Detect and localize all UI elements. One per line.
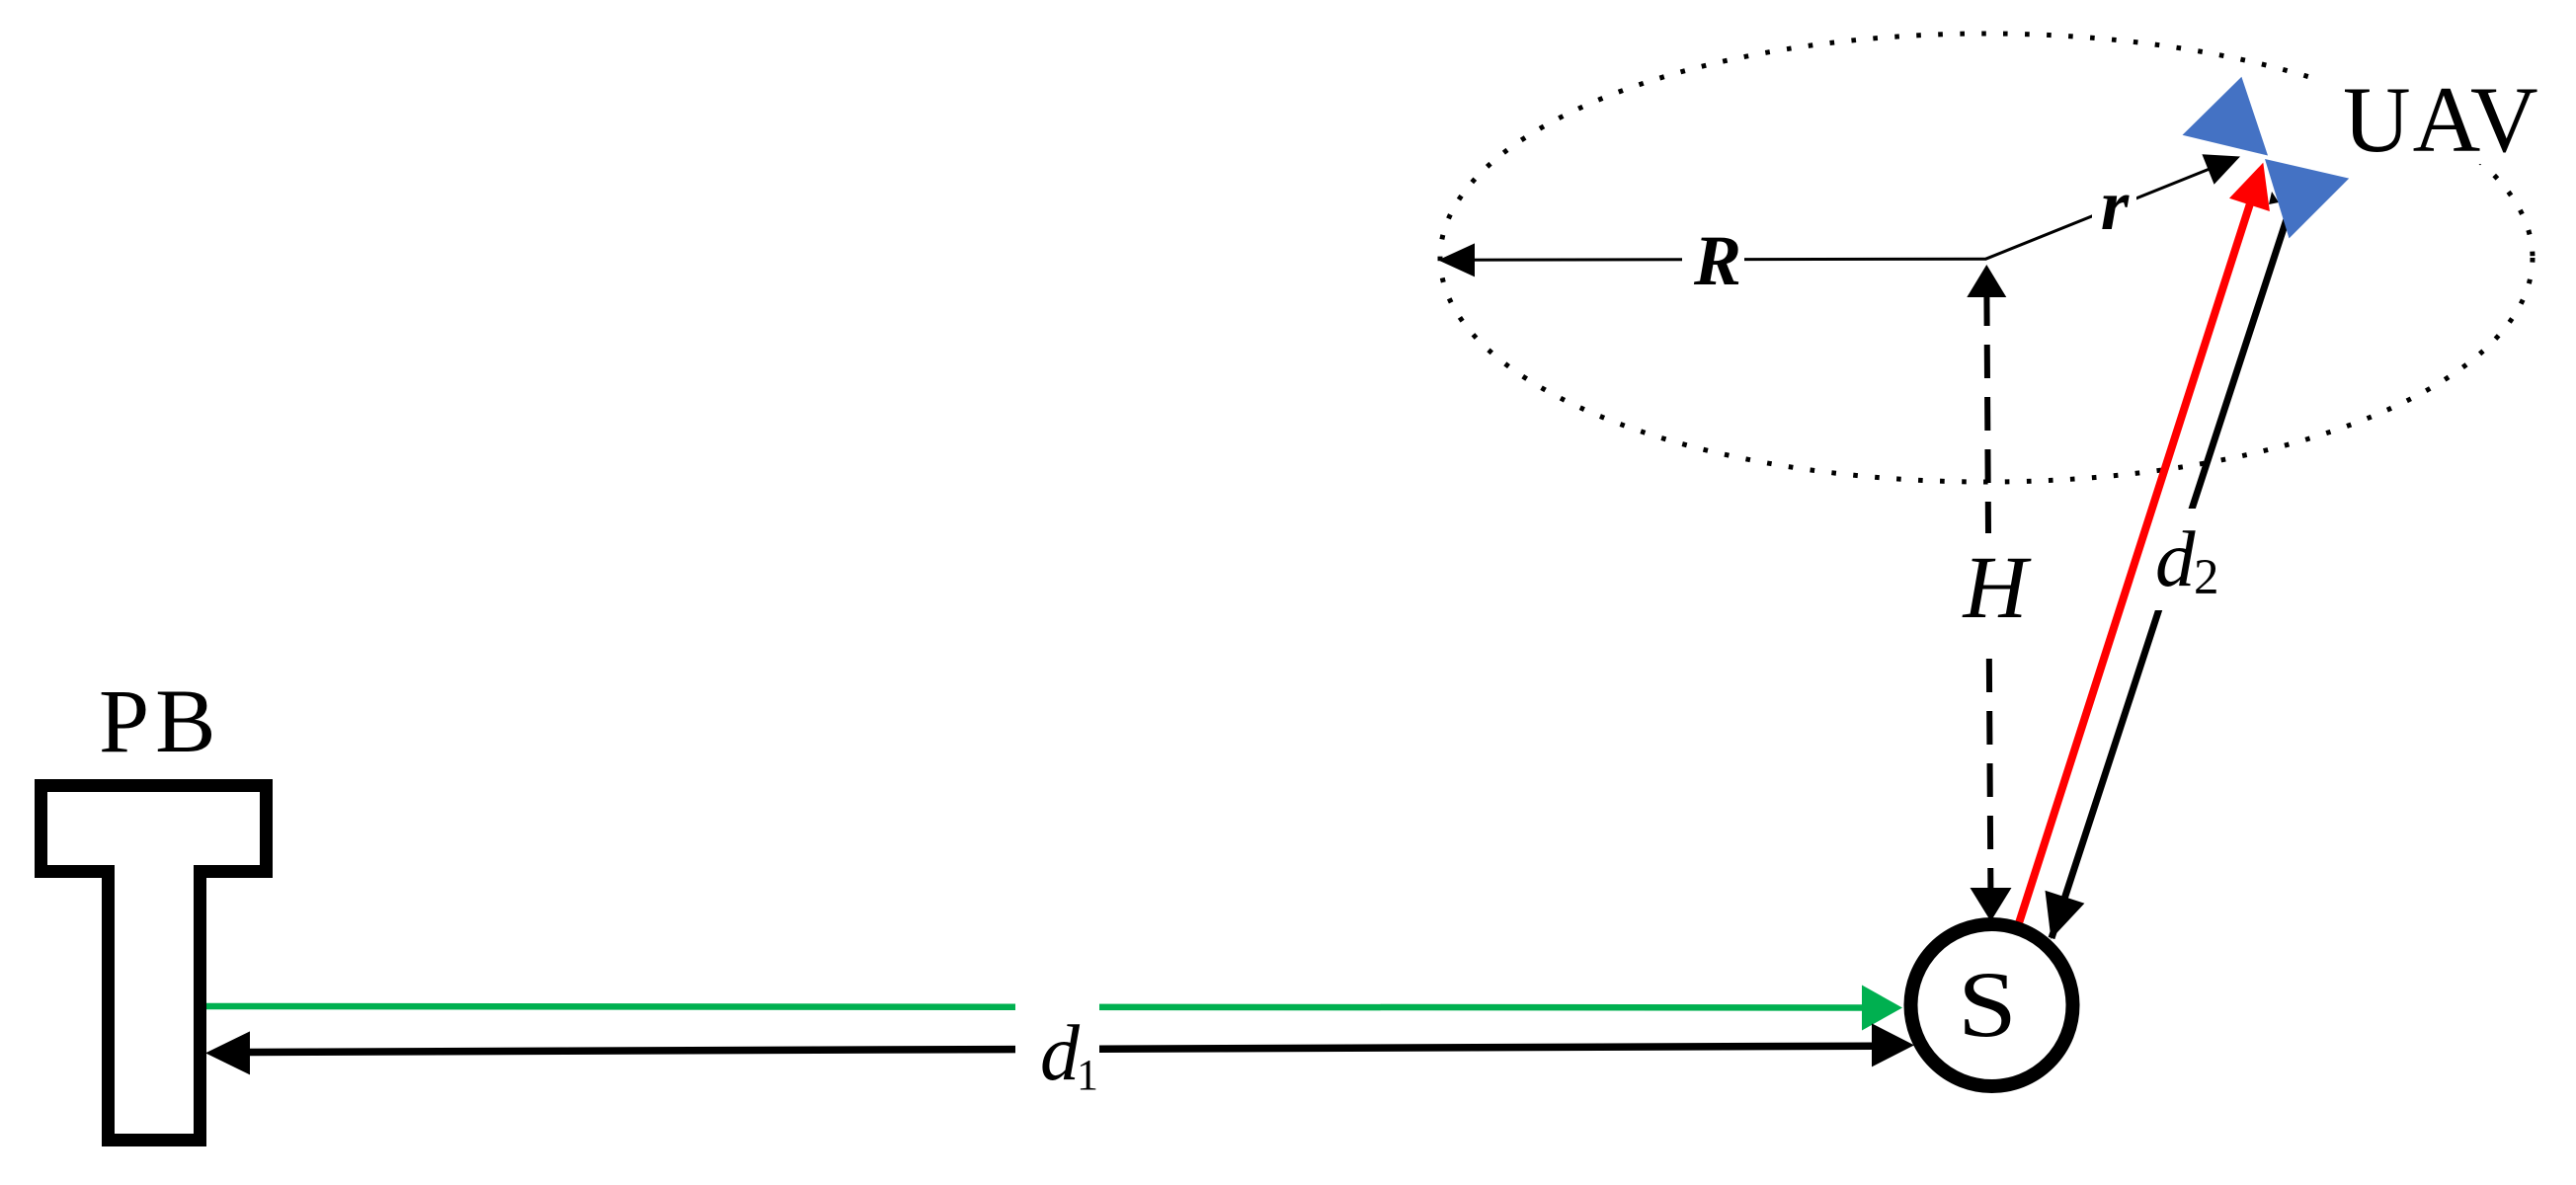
svg-text:PB: PB	[99, 671, 222, 771]
svg-text:S: S	[1958, 952, 2017, 1057]
svg-text:d: d	[1040, 1010, 1081, 1097]
svg-text:r: r	[2101, 165, 2130, 245]
svg-text:2: 2	[2194, 550, 2219, 605]
svg-text:H: H	[1963, 539, 2033, 637]
svg-text:UAV: UAV	[2343, 67, 2540, 172]
svg-text:R: R	[1693, 221, 1741, 300]
svg-text:1: 1	[1077, 1051, 1098, 1099]
svg-text:d: d	[2155, 514, 2196, 603]
